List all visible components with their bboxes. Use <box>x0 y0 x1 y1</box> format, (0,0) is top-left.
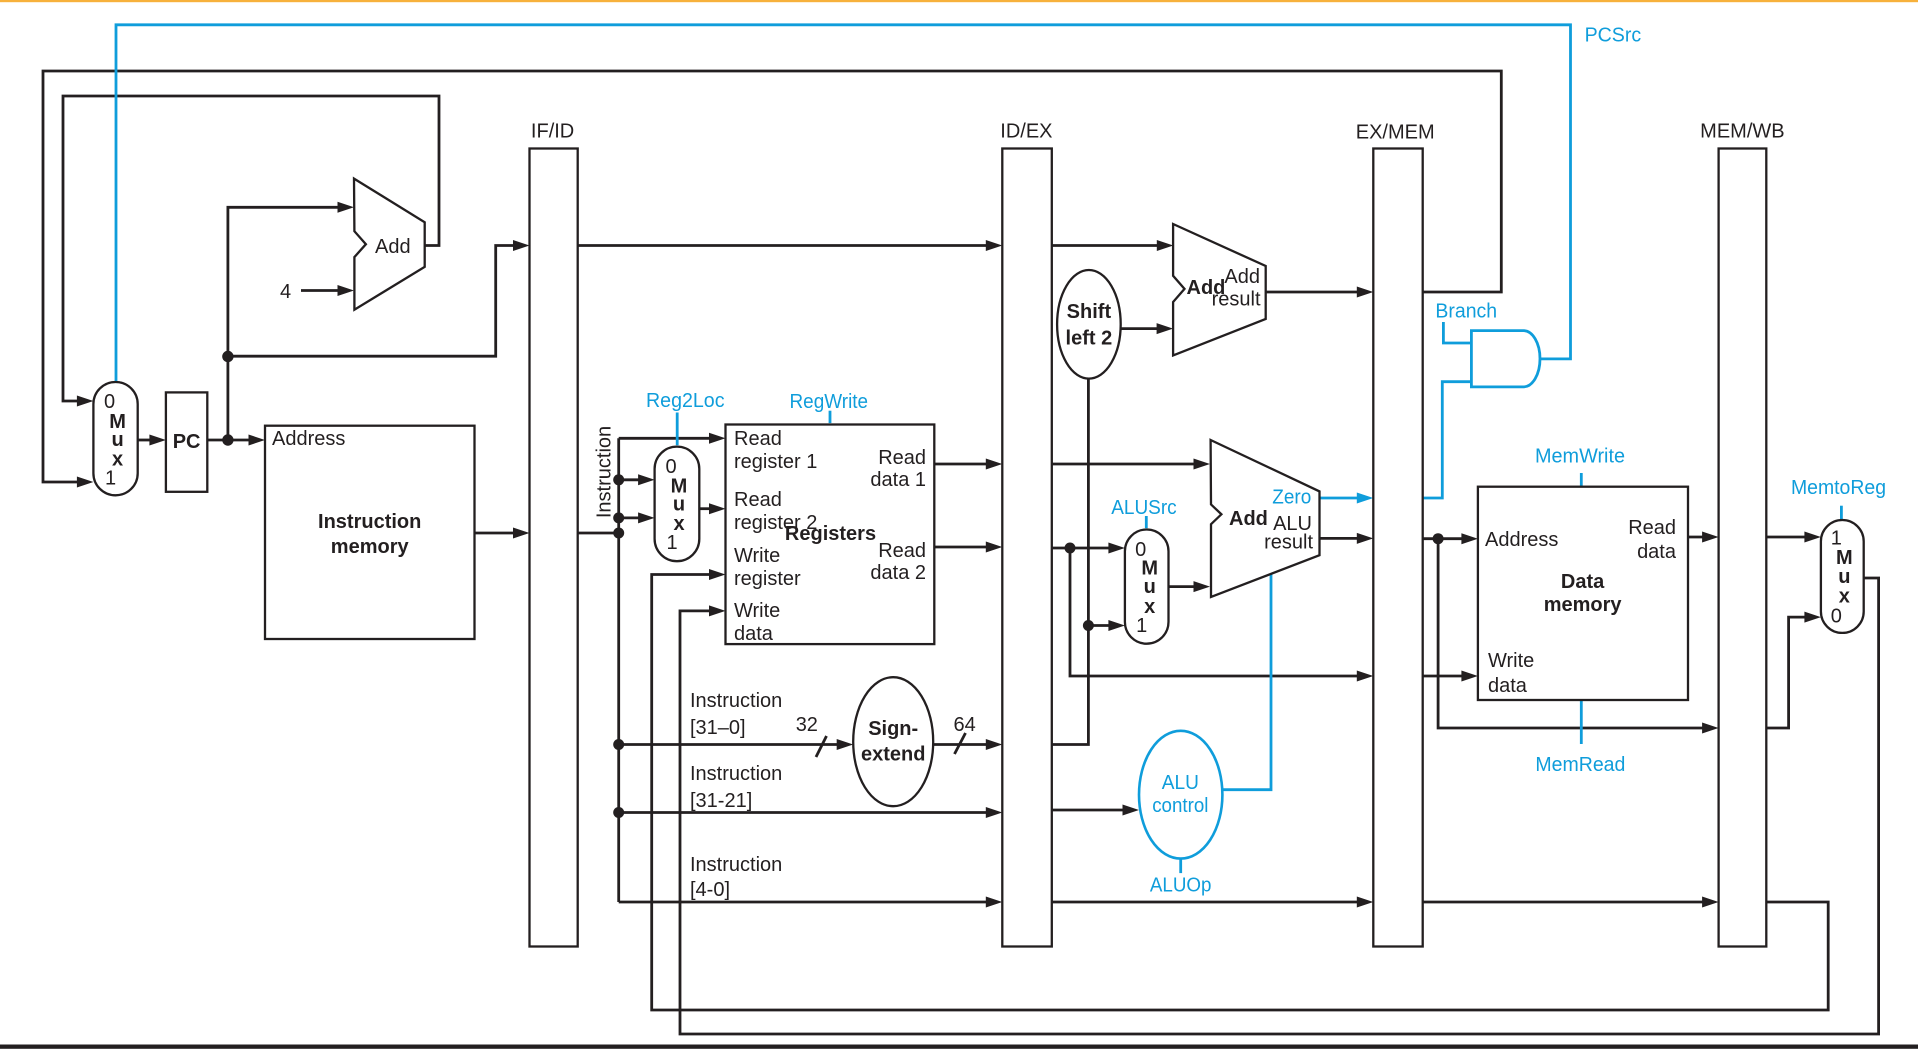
svg-text:32: 32 <box>796 714 818 736</box>
adder Add branch target <box>1173 224 1266 355</box>
wire Read data 1 to ID/EX <box>934 459 1002 470</box>
wire instruction 31-21 to ID/EX <box>619 807 1003 818</box>
frame bottom bar <box>0 1045 1918 1049</box>
svg-text:1: 1 <box>1136 615 1147 637</box>
wire ID/EX PC to branch Add <box>1052 240 1174 251</box>
register PC <box>166 392 207 491</box>
wire EX/MEM Zero to AND gate <box>1423 382 1472 498</box>
wire EX/MEM ALU result to data memory Address <box>1423 533 1478 544</box>
wire sign-extended to ALUSrc mux input 1 <box>1088 620 1125 631</box>
svg-text:PC: PC <box>173 431 201 453</box>
svg-text:Instruction: Instruction <box>690 854 782 876</box>
ellipse ALU control <box>1139 731 1222 859</box>
label Reg2Loc <box>646 390 725 412</box>
wire ID/EX write register to EX/MEM <box>1052 897 1374 908</box>
svg-text:data 1: data 1 <box>870 469 926 491</box>
svg-text:data: data <box>734 623 774 645</box>
register ID/EX <box>1002 149 1052 947</box>
wire PCSrc control <box>116 25 1571 381</box>
svg-text:Sign-: Sign- <box>868 718 918 740</box>
bus slash 32 <box>816 736 827 757</box>
node instruction junction read1 <box>613 474 624 485</box>
wire shift left 2 to branch Add <box>1121 323 1174 334</box>
svg-text:IF/ID: IF/ID <box>531 121 574 143</box>
label ALUSrc <box>1111 497 1177 519</box>
gate AND branch <box>1471 331 1540 387</box>
svg-text:ALUOp: ALUOp <box>1150 875 1212 897</box>
svg-text:Add: Add <box>1229 508 1268 530</box>
wire ALUSrc mux output to ALU <box>1169 581 1211 592</box>
svg-text:control: control <box>1152 795 1208 817</box>
svg-text:Instruction: Instruction <box>690 690 782 712</box>
svg-text:MEM/WB: MEM/WB <box>1700 121 1784 143</box>
label Instruction 31-0 <box>690 690 782 739</box>
svg-text:ALUSrc: ALUSrc <box>1111 497 1177 519</box>
label bus width 32 <box>796 714 818 736</box>
wire instruction to Reg2Loc mux input 0 <box>619 474 655 485</box>
label constant 4 <box>280 281 291 303</box>
wire ALU control to ALU <box>1222 574 1271 790</box>
svg-text:Read: Read <box>1628 517 1676 539</box>
wire MemRead tick <box>1580 700 1583 744</box>
label EX/MEM <box>1356 122 1435 144</box>
svg-text:Registers: Registers <box>785 523 876 545</box>
svg-text:register 1: register 1 <box>734 451 817 473</box>
wire MemtoReg mux output wrap to Write data <box>680 578 1879 1034</box>
svg-text:Address: Address <box>1485 529 1558 551</box>
svg-text:result: result <box>1212 289 1261 311</box>
wire ID/EX sign-extended to shift left 2 <box>1052 378 1089 745</box>
mux M3 ALUSrc <box>1125 530 1169 644</box>
wire MEM/WB write register wrap to Write register <box>652 569 1829 1010</box>
wire branch-target loop to PC mux input 1 <box>43 71 1501 488</box>
svg-text:ALU: ALU <box>1162 772 1199 794</box>
svg-text:1: 1 <box>666 532 677 554</box>
label IF/ID <box>531 121 574 143</box>
wire Reg2Loc tick <box>676 413 679 446</box>
mux M1 PC source <box>93 382 137 495</box>
svg-text:u: u <box>1144 576 1156 598</box>
wire EX/MEM write data to data memory <box>1423 671 1478 682</box>
label Zero <box>1272 487 1311 509</box>
svg-text:extend: extend <box>861 744 925 766</box>
alu main ALU <box>1211 440 1320 597</box>
svg-text:Reg2Loc: Reg2Loc <box>646 390 725 412</box>
wire PC value to IF/ID <box>228 240 530 356</box>
svg-text:x: x <box>1839 586 1850 608</box>
svg-text:Instruction: Instruction <box>690 763 782 785</box>
svg-text:4: 4 <box>280 281 291 303</box>
label MemWrite <box>1535 446 1625 468</box>
wire ID/EX read data 1 to ALU <box>1052 459 1210 470</box>
svg-text:ID/EX: ID/EX <box>1000 121 1052 143</box>
wire instruction to Reg2Loc mux input 1 <box>619 512 655 523</box>
wire RegWrite tick <box>829 411 832 423</box>
svg-text:PCSrc: PCSrc <box>1585 25 1642 47</box>
wire PC to instruction memory Address <box>207 435 265 446</box>
svg-text:Branch: Branch <box>1435 301 1497 323</box>
register MEM/WB <box>1719 149 1767 947</box>
wire PC value up to Add input <box>228 202 354 440</box>
ellipse sign-extend <box>853 677 933 806</box>
mux M2 Reg2Loc <box>655 447 700 562</box>
svg-text:[4-0]: [4-0] <box>690 879 730 901</box>
svg-text:data 2: data 2 <box>870 562 926 584</box>
svg-text:Read: Read <box>734 428 782 450</box>
node instruction junction read2 <box>613 512 624 523</box>
svg-text:64: 64 <box>954 714 976 736</box>
mux M4 MemtoReg <box>1821 520 1864 633</box>
svg-text:RegWrite: RegWrite <box>790 391 869 413</box>
svg-text:data: data <box>1488 675 1528 697</box>
svg-text:Read: Read <box>878 540 926 562</box>
wire read data 2 to EX/MEM write data <box>1070 548 1373 682</box>
wire MEM/WB ALU result to MemtoReg mux input 0 <box>1766 612 1821 728</box>
svg-text:1: 1 <box>105 468 116 490</box>
node instruction junction main <box>613 528 624 539</box>
wire MemWrite tick <box>1580 473 1583 487</box>
ellipse shift left 2 <box>1057 270 1121 379</box>
svg-text:memory: memory <box>331 536 410 558</box>
wire MemtoReg tick <box>1840 506 1843 520</box>
label MemRead <box>1535 754 1625 776</box>
wire MEM/WB read data to MemtoReg mux input 1 <box>1766 532 1821 543</box>
svg-text:Write: Write <box>734 545 780 567</box>
svg-text:EX/MEM: EX/MEM <box>1356 122 1435 144</box>
svg-text:Data: Data <box>1561 571 1605 593</box>
wire EX/MEM write register to MEM/WB <box>1423 897 1719 908</box>
wire instruction 31-0 to sign-extend <box>619 739 854 750</box>
node ALU result junction <box>1433 533 1444 544</box>
wire Branch to AND gate <box>1443 322 1471 343</box>
wire data memory Read data to MEM/WB <box>1687 532 1719 543</box>
svg-text:result: result <box>1264 532 1313 554</box>
memory instruction memory <box>265 426 475 639</box>
svg-text:[31-21]: [31-21] <box>690 790 752 812</box>
node sign-extended junction <box>1083 620 1094 631</box>
wire instruction memory to IF/ID <box>475 528 530 539</box>
memory data memory <box>1478 487 1688 700</box>
wire Read data 2 to ID/EX <box>934 542 1002 553</box>
svg-text:0: 0 <box>104 391 115 413</box>
svg-text:0: 0 <box>1831 606 1842 628</box>
svg-text:Instruction: Instruction <box>318 511 421 533</box>
label ALUOp <box>1150 875 1212 897</box>
svg-text:Address: Address <box>272 428 345 450</box>
svg-text:memory: memory <box>1544 594 1623 616</box>
wire instruction 4-0 to ID/EX <box>619 897 1003 908</box>
wire branch Add result to EX/MEM <box>1266 287 1373 298</box>
adder Add PC+4 <box>354 179 425 310</box>
svg-text:Write: Write <box>734 600 780 622</box>
svg-text:left 2: left 2 <box>1066 328 1113 350</box>
svg-text:MemtoReg: MemtoReg <box>1791 477 1886 499</box>
wire ALU result bypass to MEM/WB <box>1438 539 1719 734</box>
node PC output junction <box>222 434 233 445</box>
wire ALUOp tick <box>1179 859 1182 874</box>
label RegWrite <box>790 391 869 413</box>
label MemtoReg <box>1791 477 1886 499</box>
label PCSrc <box>1585 25 1642 47</box>
svg-text:data: data <box>1637 541 1677 563</box>
label MEM/WB <box>1700 121 1784 143</box>
wire ID/EX read data 2 to ALUSrc mux input 0 <box>1052 543 1125 554</box>
wire PC mux output to PC <box>138 435 166 446</box>
node instruction junction signext <box>613 739 624 750</box>
wire IF/ID PC to ID/EX <box>578 240 1003 251</box>
label Branch <box>1435 301 1497 323</box>
label bus width 64 <box>954 714 976 736</box>
svg-text:Shift: Shift <box>1067 301 1112 323</box>
wire PC+4 loop to PC mux input 0 <box>63 96 439 407</box>
wire Zero to EX/MEM <box>1320 493 1374 504</box>
node read data 2 junction <box>1065 543 1076 554</box>
frame top bar <box>0 0 1918 2</box>
svg-text:Add: Add <box>1224 266 1260 288</box>
register EX/MEM <box>1373 149 1422 947</box>
svg-text:Read: Read <box>734 489 782 511</box>
wire ID/EX instruction to ALU control <box>1052 805 1139 816</box>
wire sign-extend output to ID/EX <box>933 739 1002 750</box>
label ID/EX <box>1000 121 1052 143</box>
wire constant 4 to Add <box>301 285 354 296</box>
svg-text:Read: Read <box>878 447 926 469</box>
svg-text:MemWrite: MemWrite <box>1535 446 1625 468</box>
wire ALU result to EX/MEM <box>1320 533 1374 544</box>
svg-text:MemRead: MemRead <box>1535 754 1625 776</box>
registers register file <box>726 425 935 646</box>
svg-text:Add: Add <box>375 236 411 258</box>
label Instruction 4-0 <box>690 854 782 901</box>
wire Reg2Loc mux output to Read register 2 <box>699 503 725 514</box>
node PC branch junction <box>222 351 233 362</box>
svg-text:register: register <box>734 568 801 590</box>
wire IF/ID instruction bus <box>578 438 619 902</box>
node instruction junction opcode <box>613 807 624 818</box>
svg-text:Write: Write <box>1488 650 1534 672</box>
label Instruction vertical <box>594 426 616 518</box>
wire ALUSrc tick <box>1145 516 1148 528</box>
svg-text:Instruction: Instruction <box>594 426 616 518</box>
svg-text:[31–0]: [31–0] <box>690 717 746 739</box>
svg-text:Zero: Zero <box>1272 487 1311 509</box>
register IF/ID <box>530 149 578 947</box>
label Instruction 31-21 <box>690 763 782 812</box>
wire instruction to Read register 1 <box>619 433 726 444</box>
bus slash 64 <box>955 733 966 754</box>
